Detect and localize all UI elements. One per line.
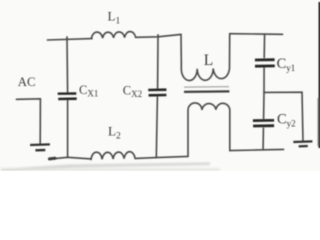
svg-text:L: L [204,52,213,69]
svg-text:AC: AC [18,75,36,89]
